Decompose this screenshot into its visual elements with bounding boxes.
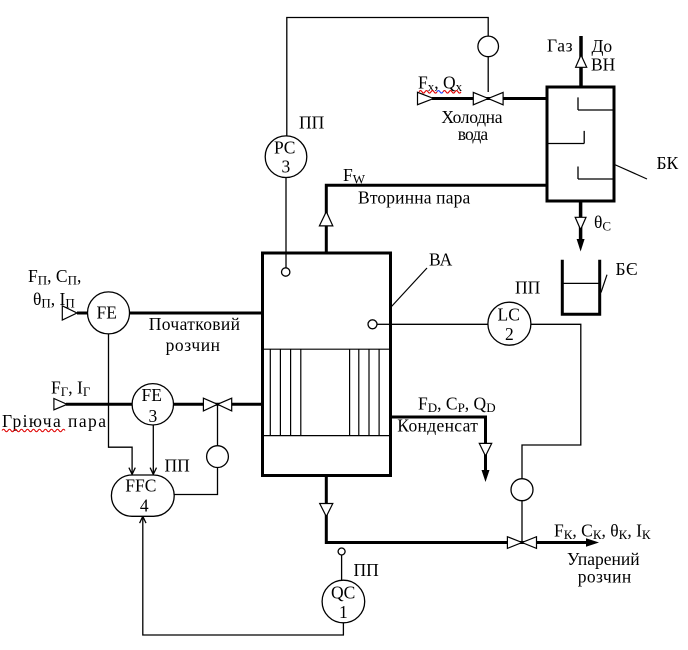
svg-text:ПП: ПП <box>299 113 325 133</box>
svg-text:ПП: ПП <box>515 278 541 298</box>
svg-text:3: 3 <box>282 157 291 177</box>
svg-text:2: 2 <box>505 324 514 344</box>
svg-text:Вторинна пара: Вторинна пара <box>358 188 471 208</box>
svg-text:Газ: Газ <box>547 35 573 55</box>
svg-text:БЄ: БЄ <box>616 259 638 279</box>
svg-text:розчин: розчин <box>578 567 632 587</box>
svg-text:Початковий: Початковий <box>149 314 240 334</box>
svg-text:1: 1 <box>339 602 348 622</box>
svg-text:ПП: ПП <box>165 456 191 476</box>
svg-text:Конденсат: Конденсат <box>397 416 478 436</box>
svg-text:вода: вода <box>458 124 489 144</box>
svg-text:FE: FE <box>97 303 117 323</box>
svg-text:PC: PC <box>274 138 295 158</box>
svg-text:QC: QC <box>331 583 355 603</box>
svg-text:LC: LC <box>498 305 520 325</box>
svg-text:Гріюча пара: Гріюча пара <box>2 411 106 431</box>
svg-text:ВН: ВН <box>591 55 616 75</box>
svg-text:До: До <box>592 36 613 56</box>
svg-text:ПП: ПП <box>354 560 380 580</box>
svg-text:FE: FE <box>142 385 162 405</box>
svg-text:FFC: FFC <box>125 476 156 496</box>
svg-text:4: 4 <box>140 496 149 516</box>
svg-text:ВА: ВА <box>429 250 453 270</box>
svg-text:БК: БК <box>657 153 679 173</box>
svg-text:розчин: розчин <box>166 335 220 355</box>
svg-text:3: 3 <box>149 406 158 426</box>
